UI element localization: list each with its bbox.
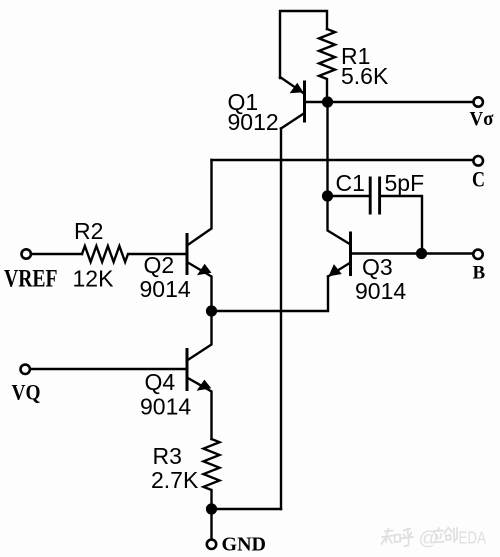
svg-text:VREF: VREF (4, 266, 58, 293)
svg-text:9014: 9014 (355, 278, 406, 304)
svg-text:R3: R3 (153, 443, 182, 469)
svg-text:5pF: 5pF (385, 170, 425, 196)
svg-text:5.6K: 5.6K (341, 63, 389, 89)
svg-text:9012: 9012 (228, 109, 279, 135)
svg-text:R2: R2 (74, 218, 103, 244)
svg-text:Vσ: Vσ (470, 108, 494, 130)
svg-text:C: C (472, 167, 485, 192)
svg-text:9014: 9014 (140, 276, 191, 302)
svg-text:2.7K: 2.7K (151, 467, 199, 493)
svg-text:GND: GND (222, 534, 267, 556)
svg-text:Q4: Q4 (145, 369, 176, 395)
svg-text:9014: 9014 (140, 394, 191, 420)
svg-text:12K: 12K (73, 266, 115, 292)
svg-text:B: B (473, 263, 486, 284)
svg-text:VQ: VQ (12, 380, 41, 405)
svg-text:C1: C1 (336, 170, 365, 196)
svg-text:EDA: EDA (459, 528, 487, 548)
svg-text:Q2: Q2 (144, 252, 175, 278)
svg-text:Q3: Q3 (362, 254, 393, 280)
